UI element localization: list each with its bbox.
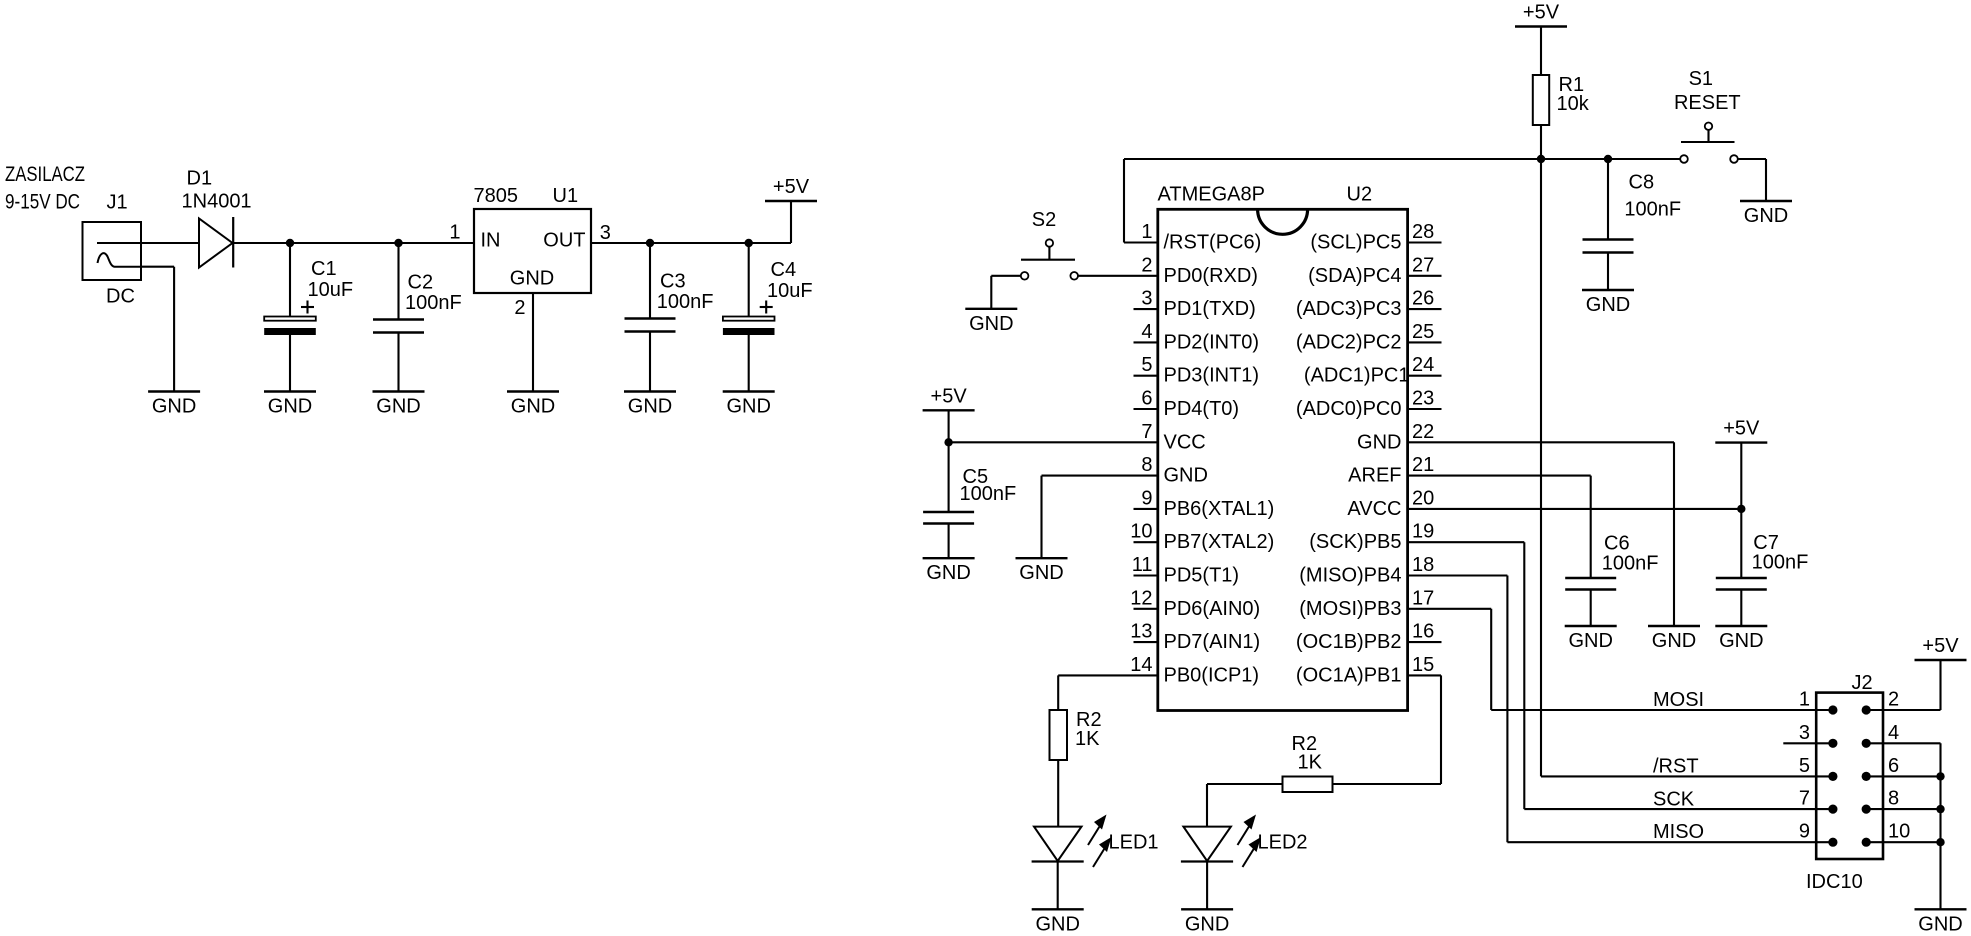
svg-text:24: 24	[1412, 354, 1434, 376]
svg-text:(SDA)PC4: (SDA)PC4	[1308, 265, 1401, 287]
svg-text:/RST: /RST	[1653, 756, 1699, 778]
U2 pin 23 stub and label (ADC0)PC0	[1296, 388, 1442, 421]
svg-text:100nF: 100nF	[960, 483, 1017, 505]
U2 pin 19 stub and label (SCK)PB5	[1309, 521, 1434, 554]
J2 pin 2 pad	[1862, 705, 1871, 714]
wire C4 lower lead	[748, 335, 750, 392]
svg-text:100nF: 100nF	[657, 291, 714, 313]
svg-text:(MOSI)PB3: (MOSI)PB3	[1299, 598, 1401, 620]
wire U2 pin 21 AREF to C6	[1408, 476, 1591, 578]
junction at C2	[394, 239, 402, 247]
U2 pin 7 stub and label VCC	[1141, 421, 1205, 454]
label C2 100nF	[405, 272, 462, 315]
resistor R1 10k	[1533, 74, 1590, 125]
capacitor C1 plates	[264, 301, 316, 336]
ground at J1	[148, 392, 200, 418]
svg-text:C1: C1	[311, 258, 337, 280]
svg-text:21: 21	[1412, 454, 1434, 476]
svg-text:1N4001: 1N4001	[182, 191, 252, 213]
svg-text:1: 1	[449, 222, 460, 244]
svg-text:PB6(XTAL1): PB6(XTAL1)	[1164, 498, 1275, 520]
svg-text:17: 17	[1412, 587, 1434, 609]
U2 pin 15 stub and label (OC1A)PB1	[1296, 654, 1434, 687]
svg-text:PD5(T1): PD5(T1)	[1164, 565, 1240, 587]
U2 pin 18 stub and label (MISO)PB4	[1299, 554, 1434, 587]
svg-text:9: 9	[1799, 821, 1810, 843]
svg-text:10uF: 10uF	[767, 280, 813, 302]
svg-text:ZASILACZ: ZASILACZ	[5, 163, 85, 186]
svg-text:GND: GND	[1357, 431, 1401, 453]
svg-text:3: 3	[600, 222, 611, 244]
ground at U2 pin 8	[1016, 558, 1068, 584]
svg-text:5: 5	[1141, 354, 1152, 376]
svg-text:PD1(TXD): PD1(TXD)	[1164, 298, 1256, 320]
wire J2 pin 10 to ground rail	[1866, 841, 1940, 843]
junction VCC/C5	[944, 438, 952, 446]
svg-text:(SCK)PB5: (SCK)PB5	[1309, 531, 1401, 553]
connector J1 (DC jack)	[83, 192, 142, 308]
ground at C5	[923, 558, 975, 584]
svg-text:28: 28	[1412, 221, 1434, 243]
svg-text:J2: J2	[1852, 672, 1873, 694]
svg-text:10k: 10k	[1557, 93, 1590, 115]
svg-text:U1: U1	[553, 185, 579, 207]
U2 pin 16 stub and label (OC1B)PB2	[1296, 621, 1442, 654]
+5V supply at R1	[1515, 2, 1567, 76]
svg-text:PD3(INT1): PD3(INT1)	[1164, 365, 1260, 387]
svg-text:(ADC1)PC1: (ADC1)PC1	[1304, 365, 1410, 387]
junction at C3	[646, 239, 654, 247]
svg-text:(MISO)PB4: (MISO)PB4	[1299, 565, 1401, 587]
label C5 100nF	[960, 466, 1017, 505]
U2 pin 17 stub and label (MOSI)PB3	[1299, 587, 1434, 620]
svg-text:IDC10: IDC10	[1806, 871, 1863, 893]
svg-text:GND: GND	[510, 268, 554, 290]
svg-text:(OC1A)PB1: (OC1A)PB1	[1296, 664, 1402, 686]
svg-text:(ADC2)PC2: (ADC2)PC2	[1296, 331, 1402, 353]
svg-text:9-15V DC: 9-15V DC	[5, 191, 80, 214]
wire J2 pin 6 to ground rail	[1866, 775, 1940, 777]
svg-text:GND: GND	[152, 396, 196, 418]
LED1	[1032, 827, 1084, 909]
wire C1 lower lead	[289, 335, 291, 392]
svg-text:S2: S2	[1032, 209, 1056, 231]
label C3 100nF	[657, 271, 714, 314]
svg-text:16: 16	[1412, 621, 1434, 643]
ground at C7	[1715, 626, 1767, 652]
wire C5 upper lead	[948, 442, 950, 512]
svg-text:GND: GND	[1719, 630, 1763, 652]
U2 pin 26 stub and label (ADC3)PC3	[1296, 288, 1442, 321]
wire J2 pin 3 stub	[1783, 742, 1833, 744]
U2 pin 24 stub and label (ADC1)PC1	[1304, 354, 1442, 387]
wire J1 sleeve to ground	[141, 267, 174, 392]
switch S2	[1021, 209, 1078, 280]
ground at U1 pin 2	[507, 392, 559, 418]
wire U2 pin 14 to R2	[1058, 675, 1158, 710]
svg-text:19: 19	[1412, 521, 1434, 543]
wire /RST net to J2 pin 5	[1541, 775, 1833, 777]
svg-text:GND: GND	[1586, 294, 1630, 316]
J2 pin 8 pad	[1862, 805, 1871, 814]
J2 pin 6 pad	[1862, 772, 1871, 781]
svg-text:IN: IN	[481, 230, 501, 252]
svg-text:GND: GND	[926, 562, 970, 584]
J2 pin 10 pad	[1862, 838, 1871, 847]
svg-text:(SCL)PC5: (SCL)PC5	[1310, 232, 1401, 254]
wire C1 upper lead	[289, 243, 291, 317]
svg-text:GND: GND	[1035, 913, 1079, 935]
capacitor C3 100nF	[625, 319, 676, 332]
U2 pin 9 stub and label PB6(XTAL1)	[1134, 487, 1275, 520]
junction at C4	[745, 239, 753, 247]
svg-text:PD0(RXD): PD0(RXD)	[1164, 265, 1258, 287]
svg-text:2: 2	[1888, 689, 1899, 711]
svg-text:U2: U2	[1347, 184, 1373, 206]
svg-text:S1: S1	[1689, 68, 1713, 90]
+5V supply at U1 output	[765, 176, 817, 201]
svg-text:27: 27	[1412, 254, 1434, 276]
J2 pin 5 pad	[1828, 772, 1837, 781]
U2 pin 27 stub and label (SDA)PC4	[1308, 254, 1441, 287]
svg-text:23: 23	[1412, 388, 1434, 410]
svg-text:GND: GND	[1652, 630, 1696, 652]
+5V supply at VCC	[923, 385, 975, 442]
svg-text:MOSI: MOSI	[1653, 689, 1704, 711]
wire C2 lower lead	[397, 333, 399, 392]
resistor R2 1K (LED1)	[1050, 709, 1102, 760]
wire SCK net: U2 pin 19 to J2 pin 7	[1408, 542, 1833, 809]
J2 pin 9 pad	[1828, 838, 1837, 847]
U2 pin 6 stub and label PD4(T0)	[1134, 388, 1240, 421]
U2 pin 22 stub and label GND	[1357, 421, 1434, 454]
wire U2 pin 15 to R2	[1333, 675, 1442, 784]
svg-text:7805: 7805	[474, 185, 519, 207]
J2 pin 1 pad	[1828, 705, 1837, 714]
capacitor C5 100nF	[923, 512, 974, 524]
label C8 100nF	[1624, 172, 1681, 221]
regulator U1 7805	[474, 185, 592, 293]
wire R1 to reset rail	[1540, 125, 1542, 159]
svg-text:18: 18	[1412, 554, 1434, 576]
svg-text:PB7(XTAL2): PB7(XTAL2)	[1164, 531, 1275, 553]
svg-text:GND: GND	[1185, 913, 1229, 935]
svg-text:ATMEGA8P: ATMEGA8P	[1158, 184, 1265, 206]
ground at C4	[723, 392, 775, 418]
ground at C8	[1582, 290, 1634, 316]
wire U1 output rail (+5V node)	[591, 201, 791, 243]
switch S1 RESET	[1674, 68, 1741, 163]
svg-text:GND: GND	[1164, 465, 1208, 487]
U2 pin 20 stub and label AVCC	[1347, 487, 1434, 520]
junction J2 pin 10/rail	[1936, 838, 1944, 846]
svg-text:PD2(INT0): PD2(INT0)	[1164, 331, 1260, 353]
wire reset rail to U2 pin 1	[1124, 159, 1680, 243]
ground at S1	[1740, 201, 1792, 227]
svg-text:PD6(AIN0): PD6(AIN0)	[1164, 598, 1261, 620]
svg-text:D1: D1	[187, 168, 213, 190]
svg-text:C6: C6	[1604, 533, 1630, 555]
svg-text:1K: 1K	[1298, 752, 1323, 774]
ground at C3	[624, 392, 676, 418]
svg-text:+5V: +5V	[1723, 418, 1760, 440]
U2 pin 5 stub and label PD3(INT1)	[1134, 354, 1260, 387]
wire R2 to LED1	[1057, 760, 1059, 827]
ground at LED1	[1032, 909, 1084, 935]
svg-text:GND: GND	[1019, 562, 1063, 584]
svg-text:6: 6	[1141, 388, 1152, 410]
svg-text:OUT: OUT	[543, 230, 585, 252]
U2 pin 28 stub and label (SCL)PC5	[1310, 221, 1441, 254]
ground at LED2	[1181, 909, 1233, 935]
IC U2 ATMEGA8P body	[1158, 184, 1408, 711]
svg-text:MISO: MISO	[1653, 821, 1704, 843]
ground rail at J2	[1939, 743, 1941, 909]
svg-text:C3: C3	[660, 271, 686, 293]
svg-text:LED2: LED2	[1258, 832, 1308, 854]
svg-text:20: 20	[1412, 487, 1434, 509]
wire U2 pin 22 GND to ground	[1408, 442, 1674, 626]
junction J2 pin 6/rail	[1936, 772, 1944, 780]
svg-text:5: 5	[1799, 755, 1810, 777]
svg-text:AVCC: AVCC	[1347, 498, 1401, 520]
J2 pin 4 pad	[1862, 739, 1871, 748]
svg-text:13: 13	[1130, 621, 1152, 643]
J2 pin 7 pad	[1828, 805, 1837, 814]
junction J2 pin 8/rail	[1936, 805, 1944, 813]
wire C6 lower lead	[1590, 590, 1592, 627]
svg-text:22: 22	[1412, 421, 1434, 443]
capacitor C6 100nF	[1565, 578, 1616, 590]
svg-text:25: 25	[1412, 321, 1434, 343]
U2 pin 14 stub and label PB0(ICP1)	[1130, 654, 1259, 687]
svg-text:10: 10	[1130, 521, 1152, 543]
wire J2 pin 4 to ground rail	[1866, 742, 1940, 744]
wire R2 to LED2	[1207, 784, 1283, 827]
J2 pin 3 pad	[1828, 739, 1837, 748]
junction at C1	[286, 239, 294, 247]
wire S2 to ground	[991, 276, 1021, 309]
svg-text:7: 7	[1141, 421, 1152, 443]
svg-text:2: 2	[514, 297, 525, 319]
ground at U2 pin 22	[1648, 626, 1700, 652]
wire MOSI net: U2 pin 17 to J2 pin 1	[1408, 609, 1833, 710]
connector J2 IDC10 body	[1806, 672, 1883, 893]
svg-text:+5V: +5V	[1922, 635, 1959, 657]
U2 pin 10 stub and label PB7(XTAL2)	[1130, 521, 1274, 554]
capacitor C8 100nF	[1583, 240, 1634, 253]
svg-text:1: 1	[1141, 221, 1152, 243]
svg-text:LED1: LED1	[1109, 832, 1159, 854]
svg-text:8: 8	[1888, 788, 1899, 810]
U2 pin 3 stub and label PD1(TXD)	[1134, 288, 1256, 321]
wire C3 upper lead	[649, 243, 651, 319]
+5V supply at AVCC	[1715, 418, 1767, 509]
wire C4 upper lead	[748, 243, 750, 317]
svg-text:12: 12	[1130, 587, 1152, 609]
+5V supply at J2	[1915, 635, 1967, 660]
junction R1/reset rail	[1537, 155, 1545, 163]
junction C8/reset rail	[1604, 155, 1612, 163]
svg-text:PB0(ICP1): PB0(ICP1)	[1164, 664, 1260, 686]
wire C3 lower lead	[649, 332, 651, 392]
svg-text:10: 10	[1888, 821, 1910, 843]
svg-text:8: 8	[1141, 454, 1152, 476]
svg-text:DC: DC	[106, 286, 135, 308]
wire VCC node to U2 pin 7	[949, 441, 1158, 443]
LED2 arrows	[1238, 815, 1262, 868]
svg-text:6: 6	[1888, 755, 1899, 777]
wire U1 GND pin to ground	[532, 293, 534, 392]
svg-text:C8: C8	[1629, 172, 1655, 194]
svg-text:10uF: 10uF	[308, 279, 354, 301]
svg-text:2: 2	[1141, 254, 1152, 276]
wire C2 upper lead	[397, 243, 399, 320]
wire C7 upper lead	[1740, 509, 1742, 578]
U2 pin 25 stub and label (ADC2)PC2	[1296, 321, 1442, 354]
U2 pin 13 stub and label PD7(AIN1)	[1130, 621, 1260, 654]
svg-text:GND: GND	[1568, 630, 1612, 652]
label C6 100nF	[1602, 533, 1659, 575]
svg-text:100nF: 100nF	[405, 292, 462, 314]
svg-text:(ADC0)PC0: (ADC0)PC0	[1296, 398, 1402, 420]
svg-text:7: 7	[1799, 788, 1810, 810]
svg-text:GND: GND	[628, 396, 672, 418]
capacitor C7 100nF	[1716, 578, 1767, 590]
svg-text:1K: 1K	[1075, 728, 1100, 750]
svg-text:100nF: 100nF	[1602, 553, 1659, 575]
ground at S2	[965, 309, 1017, 335]
svg-text:(OC1B)PB2: (OC1B)PB2	[1296, 631, 1402, 653]
wire U2 pin 20 AVCC to +5V/C7	[1408, 508, 1742, 510]
wire J2 pin 2 to +5V	[1866, 660, 1940, 710]
label C4 10uF	[767, 259, 813, 302]
ground at J2	[1915, 909, 1967, 935]
wire S1 to ground	[1738, 159, 1766, 201]
svg-text:GND: GND	[376, 396, 420, 418]
svg-text:PD7(AIN1): PD7(AIN1)	[1164, 631, 1261, 653]
svg-text:GND: GND	[1744, 205, 1788, 227]
U2 pin 12 stub and label PD6(AIN0)	[1130, 587, 1260, 620]
label C1 10uF	[308, 258, 354, 301]
wire /RST net down to J2	[1540, 159, 1542, 776]
svg-text:14: 14	[1130, 654, 1152, 676]
svg-text:9: 9	[1141, 487, 1152, 509]
wire C7 lower lead	[1740, 590, 1742, 627]
ground at C1	[264, 392, 316, 418]
svg-text:+5V: +5V	[1523, 2, 1560, 24]
ground at C6	[1565, 626, 1617, 652]
svg-text:J1: J1	[107, 192, 128, 214]
svg-text:GND: GND	[726, 396, 770, 418]
U2 pin 2 stub and label PD0(RXD)	[1141, 254, 1258, 287]
svg-text:15: 15	[1412, 654, 1434, 676]
ground at C2	[373, 392, 425, 418]
U2 pin 21 stub and label AREF	[1348, 454, 1434, 487]
svg-text:11: 11	[1132, 554, 1153, 576]
label C7 100nF	[1752, 532, 1809, 574]
wire U2 pin 8 GND to ground	[1042, 476, 1158, 559]
wire C5 lower lead	[948, 524, 950, 559]
capacitor C2 100nF	[373, 320, 424, 333]
wire D1 to U1 input (node VIN)	[233, 242, 476, 244]
svg-text:4: 4	[1888, 722, 1899, 744]
diode D1 1N4001	[182, 168, 252, 268]
resistor R2 1K (LED2)	[1283, 733, 1333, 792]
svg-text:(ADC3)PC3: (ADC3)PC3	[1296, 298, 1402, 320]
svg-text:VCC: VCC	[1164, 431, 1206, 453]
wire MISO net: U2 pin 18 to J2 pin 9	[1408, 576, 1833, 843]
svg-text:26: 26	[1412, 288, 1434, 310]
wire J1 to D1	[141, 242, 199, 244]
svg-text:+5V: +5V	[773, 176, 810, 198]
capacitor C4 10uF electrolytic	[723, 301, 775, 336]
svg-text:3: 3	[1799, 722, 1810, 744]
svg-text:GND: GND	[511, 396, 555, 418]
wire C8 lower lead	[1607, 253, 1609, 291]
svg-text:RESET: RESET	[1674, 92, 1741, 114]
svg-text:100nF: 100nF	[1752, 552, 1809, 574]
svg-text:1: 1	[1799, 689, 1810, 711]
svg-text:4: 4	[1141, 321, 1152, 343]
svg-text:/RST(PC6): /RST(PC6)	[1164, 232, 1262, 254]
svg-text:+5V: +5V	[931, 385, 968, 407]
svg-text:GND: GND	[969, 313, 1013, 335]
U2 pin 1 stub and label /RST(PC6)	[1141, 221, 1261, 254]
wire J2 pin 8 to ground rail	[1866, 808, 1940, 810]
LED2	[1181, 827, 1233, 909]
junction AVCC/C7	[1737, 505, 1745, 513]
LED1 arrows	[1088, 815, 1112, 868]
wire S2 to U2 pin 2	[1078, 275, 1158, 277]
svg-text:3: 3	[1141, 288, 1152, 310]
svg-text:C4: C4	[771, 259, 797, 281]
svg-text:100nF: 100nF	[1624, 199, 1681, 221]
svg-text:C2: C2	[408, 272, 434, 294]
label ZASILACZ 9-15V DC	[5, 163, 85, 214]
svg-text:GND: GND	[268, 396, 312, 418]
U2 pin 8 stub and label GND	[1141, 454, 1208, 487]
U2 pin 11 stub and label PD5(T1)	[1132, 554, 1239, 587]
svg-text:PD4(T0): PD4(T0)	[1164, 398, 1240, 420]
svg-text:AREF: AREF	[1348, 465, 1401, 487]
U2 pin 4 stub and label PD2(INT0)	[1134, 321, 1260, 354]
svg-text:GND: GND	[1918, 913, 1962, 935]
wire C8 upper lead	[1607, 159, 1609, 240]
svg-text:SCK: SCK	[1653, 788, 1695, 810]
